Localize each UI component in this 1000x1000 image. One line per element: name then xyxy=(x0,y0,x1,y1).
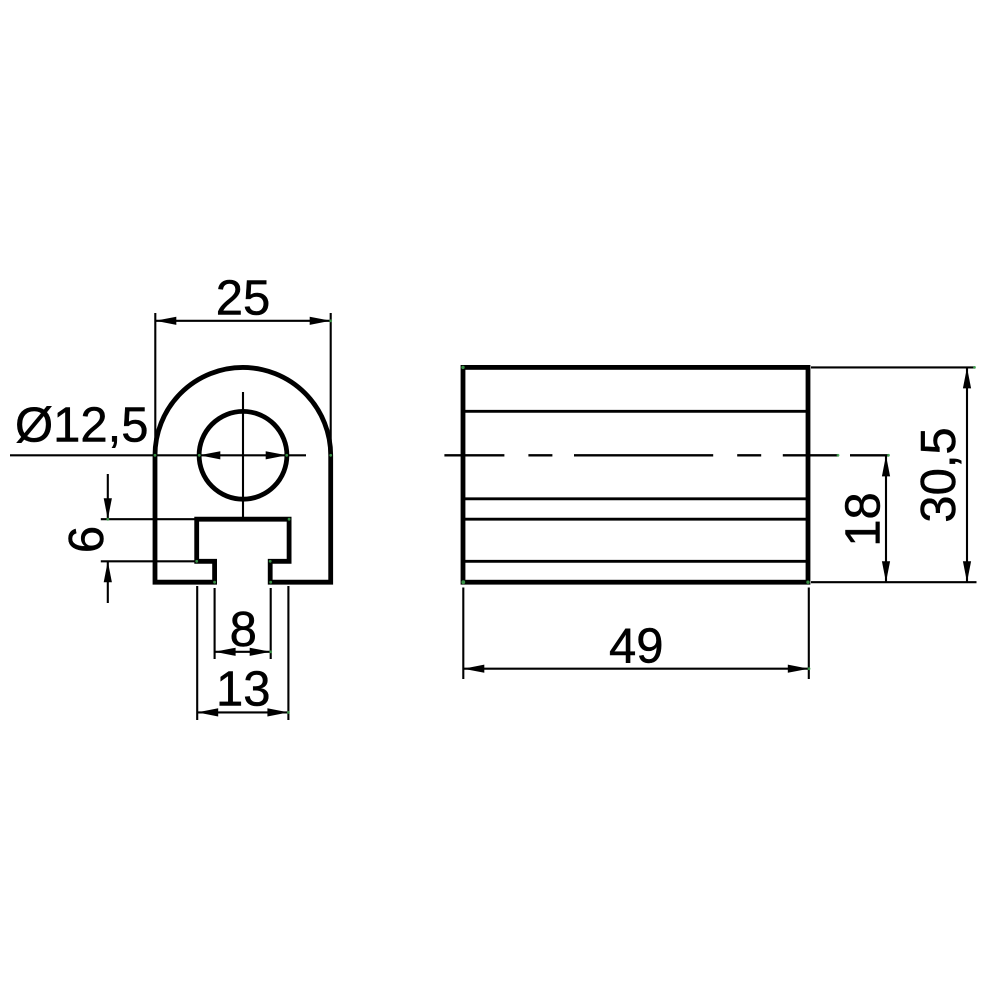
side view: hole top edge line xyxy=(463,410,808,413)
dimension 49: arrow right xyxy=(788,665,809,673)
svg-text:30,5: 30,5 xyxy=(912,427,966,522)
dimension 6: lower extension line xyxy=(101,560,215,562)
dimension 30,5 / 18: top extension line xyxy=(811,366,975,368)
dimension 13: dimension line xyxy=(197,711,288,713)
side view: step edge line xyxy=(463,560,808,563)
svg-text:25: 25 xyxy=(216,271,271,325)
dimension 25: left extension line xyxy=(154,313,156,455)
dimension 8: right extension line xyxy=(270,588,272,659)
dimension 30,5: arrow down xyxy=(963,561,971,582)
dimension 8: left extension line xyxy=(214,588,216,659)
dimension 6: arrow down xyxy=(104,498,112,519)
side view: outer rectangle xyxy=(463,367,808,582)
Ø12,5 arrow right xyxy=(266,451,287,459)
dimension 49: arrow left xyxy=(463,665,484,673)
dimension 18: arrow up xyxy=(882,455,890,476)
front view: hole circle Ø12,5 xyxy=(199,411,287,499)
dimension 6: upper extension line xyxy=(101,518,197,520)
dimension 6: lower stem xyxy=(107,561,109,603)
dimension 8: arrow right xyxy=(250,648,271,656)
dimension 6: arrow up xyxy=(104,561,112,582)
svg-text:8: 8 xyxy=(230,603,257,657)
front view: vertical center line of hole xyxy=(242,392,244,519)
Ø12,5 arrow left xyxy=(199,451,220,459)
dimension 13: left extension line xyxy=(196,586,198,720)
front view: part outline with T-slot xyxy=(155,367,331,582)
svg-text:13: 13 xyxy=(216,662,271,716)
dimension 30,5: arrow up xyxy=(963,367,971,388)
dimension 18: dimension line xyxy=(885,455,887,582)
dimension 30,5: dimension line xyxy=(966,367,968,582)
side view: hole bottom edge line xyxy=(463,497,808,500)
dimension 25: right extension line xyxy=(330,313,332,455)
svg-text:6: 6 xyxy=(60,526,114,553)
dimension 8: arrow left xyxy=(215,648,236,656)
side view: dashed center line xyxy=(444,454,888,456)
svg-text:49: 49 xyxy=(609,619,664,673)
svg-text:18: 18 xyxy=(837,492,891,547)
dimension 49: right extension line xyxy=(808,588,810,680)
svg-text:Ø12,5: Ø12,5 xyxy=(15,399,148,453)
dimension 25: arrow right xyxy=(310,317,331,325)
dimension 8: dimension line xyxy=(215,651,271,653)
front view: horizontal center line / Ø12,5 dimension line xyxy=(10,454,306,456)
dimension 13: right extension line xyxy=(287,586,289,720)
dimension 13: arrow right xyxy=(267,708,288,716)
dimension 6: upper stem xyxy=(107,474,109,519)
side view: slot top edge line xyxy=(463,518,808,521)
dimension 18: arrow down xyxy=(882,561,890,582)
dimension 49: dimension line xyxy=(463,668,809,670)
dimension 25: dimension line xyxy=(155,320,330,322)
dimension 49: left extension line xyxy=(462,588,464,680)
dimension 13: arrow left xyxy=(197,708,218,716)
dimension 25: arrow left xyxy=(155,317,176,325)
snap markers (green endpoint dots) xyxy=(106,319,975,713)
dimension 30,5 / 18: bottom extension line xyxy=(811,581,977,583)
